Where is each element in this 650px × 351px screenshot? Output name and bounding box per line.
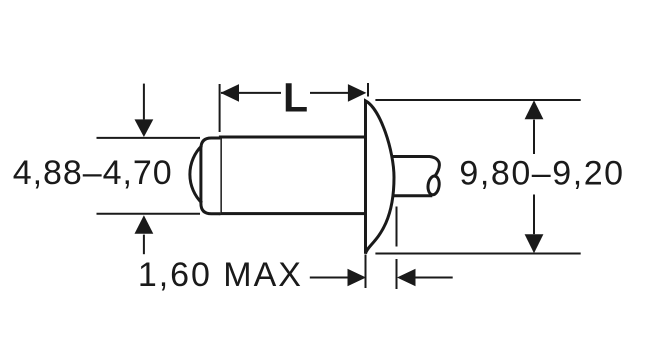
label 4,88-4,70 (13, 154, 172, 192)
arrowhead 9,80 pointing down (525, 234, 544, 253)
svg-text:1,60 MAX: 1,60 MAX (138, 256, 301, 294)
rivet dome head (lens profile) (366, 101, 395, 254)
arrowhead 9,80 pointing up (525, 100, 544, 119)
arrowhead 1,60 pointing left (397, 269, 416, 287)
dimension L right extension line (367, 83, 369, 97)
svg-text:4,88–4,70: 4,88–4,70 (13, 154, 172, 192)
extension line top right (head diameter, upper) (375, 99, 580, 101)
extension line left bottom (body diameter, lower) (97, 213, 201, 215)
extension line bottom right (head diameter, lower) (375, 253, 580, 255)
dimension 4,88 lower arrow leader (143, 235, 145, 255)
rivet body (220, 137, 365, 214)
extension line head crown lower segment (396, 259, 398, 289)
arrowhead L pointing left (221, 84, 240, 102)
arrowhead L pointing right (348, 84, 367, 102)
dimension L line right segment (310, 92, 348, 94)
dimension 9,80 vertical line lower segment (533, 195, 535, 235)
dimension 4,88 upper arrow leader (143, 84, 145, 120)
dimension L line left segment (221, 92, 281, 94)
svg-text:L: L (283, 74, 308, 120)
mandrel stem with break lines (385, 157, 440, 196)
extension line head crown upper segment (396, 207, 398, 247)
arrowhead 4,88 pointing down (135, 119, 154, 137)
dimension 1,60 leader line left (310, 277, 348, 279)
arrowhead 4,88 pointing up (135, 215, 154, 234)
extension line head underside (below tip) (365, 255, 367, 289)
dimension 1,60 leader line right (416, 277, 453, 279)
arrowhead 1,60 pointing right (348, 269, 367, 287)
dimension 9,80 vertical line upper segment (533, 120, 535, 154)
label L (283, 74, 308, 120)
label 1,60 MAX (138, 256, 301, 294)
svg-text:9,80–9,20: 9,80–9,20 (459, 154, 623, 192)
mandrel head cap (left rounded end) (201, 138, 221, 214)
mandrel head dome arc (crescent) (190, 146, 202, 203)
dimension L left extension line (219, 84, 221, 132)
extension line left top (body diameter, upper) (97, 137, 201, 139)
label 9,80-9,20 (459, 154, 623, 192)
